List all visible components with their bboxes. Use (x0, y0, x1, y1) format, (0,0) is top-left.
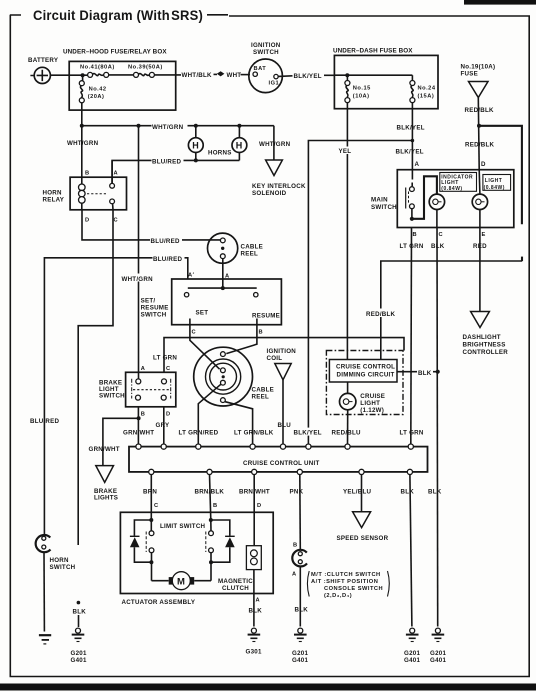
wire BLK main switch C to ground (436, 228, 439, 627)
svg-text:PNK: PNK (290, 489, 304, 496)
svg-text:D: D (257, 503, 262, 509)
svg-text:BLK: BLK (295, 607, 309, 614)
limit switch right contact (206, 520, 214, 581)
wire LT GRN brake switch feed (153, 338, 404, 373)
title Circuit Diagram (With SRS) (10, 8, 228, 23)
svg-text:C: C (439, 232, 444, 238)
svg-text:A′: A′ (188, 273, 195, 279)
fuse No.41(80A) (80, 65, 115, 78)
wire battery to under-hood box (50, 74, 87, 76)
svg-text:RELAY: RELAY (43, 197, 65, 204)
svg-text:No.15: No.15 (353, 86, 371, 92)
node RED/BLK junction (477, 124, 481, 128)
fuse No.42 (20A) (79, 77, 106, 103)
svg-text:CRUISE CONTROL UNIT: CRUISE CONTROL UNIT (243, 460, 319, 467)
wire main switch to indicator light (412, 176, 437, 219)
light bulb (472, 170, 487, 228)
wire stub cap to dimming feed (521, 257, 523, 262)
svg-text:No.24: No.24 (418, 86, 436, 92)
wire GRN/WHT to brake lights (89, 418, 139, 465)
wire WHT/BLK to ignition switch (154, 72, 217, 79)
wire BLK/YEL ignition to under-dash box (278, 73, 334, 80)
speed sensor (337, 512, 389, 542)
svg-text:RED/BLK: RED/BLK (366, 311, 396, 318)
svg-text:UNDER–HOOD FUSE/RELAY BOX: UNDER–HOOD FUSE/RELAY BOX (63, 49, 167, 56)
svg-text:B: B (213, 503, 218, 509)
svg-text:IG1: IG1 (269, 81, 280, 87)
svg-text:A: A (292, 572, 297, 578)
node main switch B junction (410, 217, 414, 221)
svg-text:(20A): (20A) (88, 94, 105, 100)
diode right (211, 520, 235, 562)
svg-text:LIGHT: LIGHT (485, 178, 503, 184)
horn 1 (188, 126, 203, 161)
svg-text:SWITCH: SWITCH (99, 393, 125, 400)
svg-text:FUSE: FUSE (461, 71, 479, 78)
svg-text:LT GRN: LT GRN (400, 430, 424, 437)
wire RED/BLK branch right and down (479, 126, 522, 225)
wire to cruise control dimming circuit (381, 261, 522, 360)
svg-text:A/T :SHIFT POSITION: A/T :SHIFT POSITION (311, 579, 378, 585)
svg-text:LT GRN/BLK: LT GRN/BLK (234, 430, 274, 437)
svg-text:CABLE: CABLE (252, 387, 275, 394)
wire WHT/GRN down to horn relay B (81, 126, 83, 178)
svg-text:SET/: SET/ (141, 298, 156, 305)
svg-text:G201: G201 (71, 650, 87, 657)
svg-text:G201: G201 (404, 650, 420, 657)
wire No.42 down to WHT/GRN junction (81, 103, 83, 126)
horn relay coil (79, 177, 86, 210)
svg-text:DASHLIGHT: DASHLIGHT (463, 334, 501, 341)
svg-text:A: A (141, 366, 146, 372)
node right diode junction (209, 560, 213, 564)
diode left (130, 520, 151, 562)
svg-text:G301: G301 (246, 649, 262, 656)
svg-text:A: A (114, 171, 119, 177)
svg-text:CLUTCH: CLUTCH (222, 585, 249, 592)
svg-text:CRUISE: CRUISE (360, 393, 385, 400)
svg-text:M: M (177, 577, 185, 588)
wire horn relay C down (78, 210, 113, 545)
fuse No.39(50A) (128, 65, 163, 78)
svg-text:LT GRN: LT GRN (153, 355, 177, 362)
brake light switch (99, 366, 176, 418)
set contact (184, 293, 189, 325)
wire WHT/GRN key interlock branch (259, 126, 291, 160)
svg-text:BRN: BRN (143, 489, 157, 496)
svg-text:BATTERY: BATTERY (28, 57, 59, 64)
svg-text:YEL: YEL (339, 148, 352, 155)
svg-text:HORN: HORN (50, 557, 69, 564)
svg-text:BLK: BLK (249, 608, 263, 615)
wire RED/BLK fuse No.19 to main switch D (465, 98, 495, 170)
wire WHT/GRN to brake light switch A (121, 126, 154, 379)
ground G201 G401 unit (404, 628, 420, 664)
svg-text:LIMIT SWITCH: LIMIT SWITCH (160, 523, 206, 530)
svg-text:BLK/YEL: BLK/YEL (396, 149, 424, 156)
node brake lights stub (77, 601, 81, 605)
wire GRY brake D to unit (156, 407, 171, 447)
svg-text:LIGHTS: LIGHTS (94, 495, 118, 502)
svg-text:(10A): (10A) (353, 94, 370, 100)
svg-text:CONTROLLER: CONTROLLER (463, 349, 509, 356)
wire RED main switch E to dashlight controller (479, 228, 481, 312)
wire cable reel to LT GRN/BLK (225, 402, 274, 447)
svg-text:H: H (236, 141, 243, 151)
cruise light (340, 382, 386, 414)
svg-text:ACTUATOR ASSEMBLY: ACTUATOR ASSEMBLY (122, 599, 196, 606)
wire set C to cable reel (190, 325, 220, 370)
cable reel lower (194, 347, 274, 406)
label set/resume terminals (192, 330, 264, 336)
ground G201 G401 left (71, 628, 87, 664)
connector diamond (217, 71, 225, 76)
wire BLU ignition coil to unit (278, 380, 292, 447)
svg-text:SPEED SENSOR: SPEED SENSOR (337, 535, 389, 542)
dashlight brightness controller (463, 312, 509, 357)
cruise control unit (129, 447, 428, 472)
svg-text:BLK/YEL: BLK/YEL (397, 125, 425, 132)
actuator assembly box (120, 512, 273, 606)
wire BLK stub to ground (73, 609, 87, 628)
unit top labels (294, 428, 424, 437)
svg-text:HORN: HORN (43, 190, 62, 197)
svg-text:BLK/YEL: BLK/YEL (294, 430, 322, 437)
svg-text:D: D (481, 161, 486, 168)
svg-text:BLU/RED: BLU/RED (152, 159, 182, 166)
svg-text:BLU/RED: BLU/RED (153, 256, 183, 263)
set/resume switch (141, 273, 282, 325)
svg-text:C: C (166, 366, 171, 372)
svg-text:YEL/BLU: YEL/BLU (343, 489, 372, 496)
svg-text:A: A (415, 161, 420, 168)
light label box (483, 175, 511, 191)
fuse No.24 (15A) (410, 75, 436, 102)
under-dash fuse box (333, 48, 438, 109)
cruise control dimming circuit outer box (326, 351, 403, 415)
svg-text:BLK: BLK (73, 609, 87, 616)
wire YEL/BLU to speed sensor (361, 475, 363, 512)
battery (28, 57, 59, 84)
svg-text:RESUME: RESUME (252, 313, 280, 320)
svg-text:BLK/YEL: BLK/YEL (294, 73, 322, 80)
svg-text:BRIGHTNESS: BRIGHTNESS (463, 342, 506, 349)
svg-text:H: H (192, 141, 199, 151)
svg-text:LT GRN/RED: LT GRN/RED (179, 430, 219, 437)
svg-text:B: B (293, 543, 298, 549)
svg-text:BLU/RED: BLU/RED (151, 238, 181, 245)
svg-text:WHT: WHT (227, 72, 242, 79)
node actuator C junction (149, 518, 153, 522)
horn relay contacts (87, 160, 115, 209)
ground G201 G401 main BLK (430, 628, 446, 664)
svg-text:SWITCH: SWITCH (50, 564, 76, 571)
svg-text:D: D (85, 218, 90, 224)
svg-text:WHT/BLK: WHT/BLK (182, 72, 213, 79)
main switch (371, 170, 514, 228)
svg-text:IGNITION: IGNITION (251, 42, 281, 49)
svg-text:Circuit Diagram (With SRS): Circuit Diagram (With SRS) (33, 8, 203, 23)
svg-text:G401: G401 (430, 657, 446, 664)
svg-text:B: B (413, 232, 418, 238)
node horn feed junctions (80, 124, 84, 128)
wire BRN/BLK to actuator B (210, 475, 218, 520)
key interlock solenoid (252, 160, 306, 197)
svg-text:(0.84W): (0.84W) (484, 185, 505, 191)
indicator light label box (440, 173, 477, 192)
svg-text:WHT/GRN: WHT/GRN (122, 276, 154, 283)
ignition switch (249, 42, 283, 93)
unit bottom terminals (149, 469, 413, 474)
svg-text:G401: G401 (71, 657, 87, 664)
svg-text:DIMMING CIRCUIT: DIMMING CIRCUIT (337, 372, 395, 379)
wire BRN to actuator C (151, 475, 158, 520)
ignition coil (267, 348, 297, 380)
fuse No.19(10A) (461, 64, 496, 98)
svg-text:RESUME: RESUME (141, 305, 169, 312)
wire BLK clutch switch to ground (295, 567, 309, 627)
horn relay (43, 171, 127, 224)
ground G201 G401 clutch (292, 628, 308, 664)
wire BRN/WHT to magnetic clutch D (254, 475, 261, 546)
svg-text:GRN/WHT: GRN/WHT (123, 430, 154, 437)
label RED/BLK dimming feed (366, 309, 400, 319)
indicator light bulb (429, 194, 444, 227)
wire BLK/YEL from fuse No.24 to main switch A (396, 103, 425, 170)
node actuator B junction (209, 518, 213, 522)
svg-text:G201: G201 (430, 650, 446, 657)
svg-text:MAGNETIC: MAGNETIC (218, 578, 253, 585)
unit bottom labels (143, 489, 442, 496)
horn switch (36, 535, 76, 571)
brake lights arrow (94, 466, 118, 502)
set/resume internal bar (188, 287, 257, 289)
svg-text:D: D (166, 412, 171, 418)
svg-text:SET: SET (196, 310, 209, 317)
wire horn relay D to cable reel (82, 210, 220, 245)
svg-text:CRUISE CONTROL: CRUISE CONTROL (336, 364, 395, 371)
svg-text:(1.12W): (1.12W) (360, 407, 384, 414)
wire clutch to ground G301 (249, 570, 263, 627)
wire PNK to clutch switch (293, 475, 300, 550)
node horn1 return junction (194, 158, 198, 162)
wire cable reel to LT GRN/RED (179, 384, 221, 446)
svg-text:B: B (259, 330, 264, 336)
limit switch left contact (146, 520, 154, 581)
svg-text:GRN/WHT: GRN/WHT (89, 446, 120, 453)
svg-text:WHT/GRN: WHT/GRN (67, 140, 99, 147)
wire BLU/RED horns return (112, 157, 239, 184)
wire between fuses (109, 74, 134, 76)
wire BLK unit to ground (410, 475, 412, 627)
svg-text:RED/BLU: RED/BLU (332, 430, 362, 437)
motor M (152, 572, 212, 590)
svg-text:(15A): (15A) (418, 94, 435, 100)
wire WHT/GRN horn feed (82, 122, 274, 131)
svg-text:BLK: BLK (428, 489, 442, 496)
svg-text:COIL: COIL (267, 355, 283, 362)
main switch terminals (400, 232, 488, 250)
magnetic clutch (218, 546, 261, 592)
svg-text:(0.84W): (0.84W) (441, 186, 462, 192)
scan bar bottom (0, 684, 536, 691)
svg-text:SWITCH: SWITCH (371, 204, 397, 211)
svg-text:BLK: BLK (418, 370, 432, 377)
svg-text:SOLENOID: SOLENOID (252, 190, 287, 197)
resume contact (254, 293, 258, 325)
svg-text:(2,D₃,D₄): (2,D₃,D₄) (324, 593, 352, 599)
svg-text:BLK: BLK (401, 489, 415, 496)
ground horn switch (39, 635, 51, 644)
svg-text:G401: G401 (292, 657, 308, 664)
svg-text:C: C (192, 330, 197, 336)
under-hood fuse/relay box (63, 49, 176, 111)
svg-text:No.41(80A): No.41(80A) (80, 65, 115, 71)
svg-text:C: C (154, 503, 159, 509)
wire horn switch to ground (43, 552, 45, 632)
svg-text:C: C (114, 218, 119, 224)
wire BLK/YEL branch to cruise unit (308, 141, 412, 447)
svg-text:WHT/GRN: WHT/GRN (259, 141, 291, 148)
wire YEL from fuse No.15 to dimming circuit (338, 103, 355, 360)
unit top terminals (136, 444, 414, 449)
svg-text:MAIN: MAIN (371, 197, 388, 204)
node battery feed junction (81, 73, 85, 77)
node under-dash junction (345, 73, 349, 77)
wire BLK dimming to main BLK wire (397, 368, 438, 377)
wire resume B to cable reel (226, 325, 257, 354)
node left diode junction (149, 560, 153, 564)
svg-text:REEL: REEL (252, 394, 270, 401)
svg-text:SWITCH: SWITCH (141, 312, 167, 319)
svg-text:BLU/RED: BLU/RED (30, 418, 60, 425)
wire LT GRN main switch B to unit (410, 228, 413, 447)
svg-text:BLK: BLK (431, 243, 445, 250)
wire cable reel to set/resume A (222, 259, 224, 289)
horn 2 (232, 126, 247, 161)
svg-text:UNDER–DASH FUSE BOX: UNDER–DASH FUSE BOX (333, 48, 413, 55)
svg-text:A: A (225, 274, 230, 280)
svg-text:HORNS: HORNS (208, 150, 232, 157)
svg-text:RED/BLK: RED/BLK (465, 107, 495, 114)
cable reel upper (208, 233, 264, 263)
ground G301 (246, 628, 262, 655)
wire inside under-dash box (334, 74, 412, 76)
main switch contact (406, 170, 415, 219)
svg-text:GRY: GRY (156, 422, 171, 429)
wire RED/BLU cruise light to unit (347, 410, 349, 447)
svg-text:E: E (482, 232, 486, 238)
scan bar top-right (464, 0, 536, 5)
node BLK/YEL branch junction (411, 139, 415, 143)
svg-text:No.42: No.42 (89, 87, 107, 93)
svg-text:REEL: REEL (241, 251, 259, 258)
fuse No.15 (10A) (345, 77, 371, 103)
svg-text:G201: G201 (292, 650, 308, 657)
svg-text:B: B (85, 171, 90, 177)
svg-text:A: A (256, 598, 261, 604)
clutch switch (292, 550, 307, 578)
node BLK junction (436, 370, 440, 374)
svg-text:LIGHT: LIGHT (360, 400, 380, 407)
svg-text:M/T :CLUTCH SWITCH: M/T :CLUTCH SWITCH (311, 572, 381, 578)
node brake B junction (137, 416, 141, 420)
svg-text:BAT: BAT (254, 66, 267, 72)
svg-text:No.39(50A): No.39(50A) (128, 65, 163, 71)
svg-text:G401: G401 (404, 657, 420, 664)
clutch switch note (307, 571, 389, 599)
cruise control dimming circuit (329, 360, 397, 383)
svg-text:B: B (141, 412, 146, 418)
svg-text:CABLE: CABLE (241, 244, 264, 251)
svg-text:BLU: BLU (278, 422, 292, 429)
svg-text:No.19(10A): No.19(10A) (461, 64, 496, 71)
svg-text:WHT/GRN: WHT/GRN (152, 124, 184, 131)
wire GRN/WHT brake B to unit (137, 407, 139, 447)
svg-text:RED/BLK: RED/BLK (465, 142, 495, 149)
node set/resume A junction (221, 286, 225, 290)
svg-text:SWITCH: SWITCH (253, 49, 279, 56)
wire BLU/RED left column feed (30, 254, 188, 535)
wire WHT (227, 72, 251, 79)
svg-text:CONSOLE SWITCH: CONSOLE SWITCH (324, 586, 383, 592)
